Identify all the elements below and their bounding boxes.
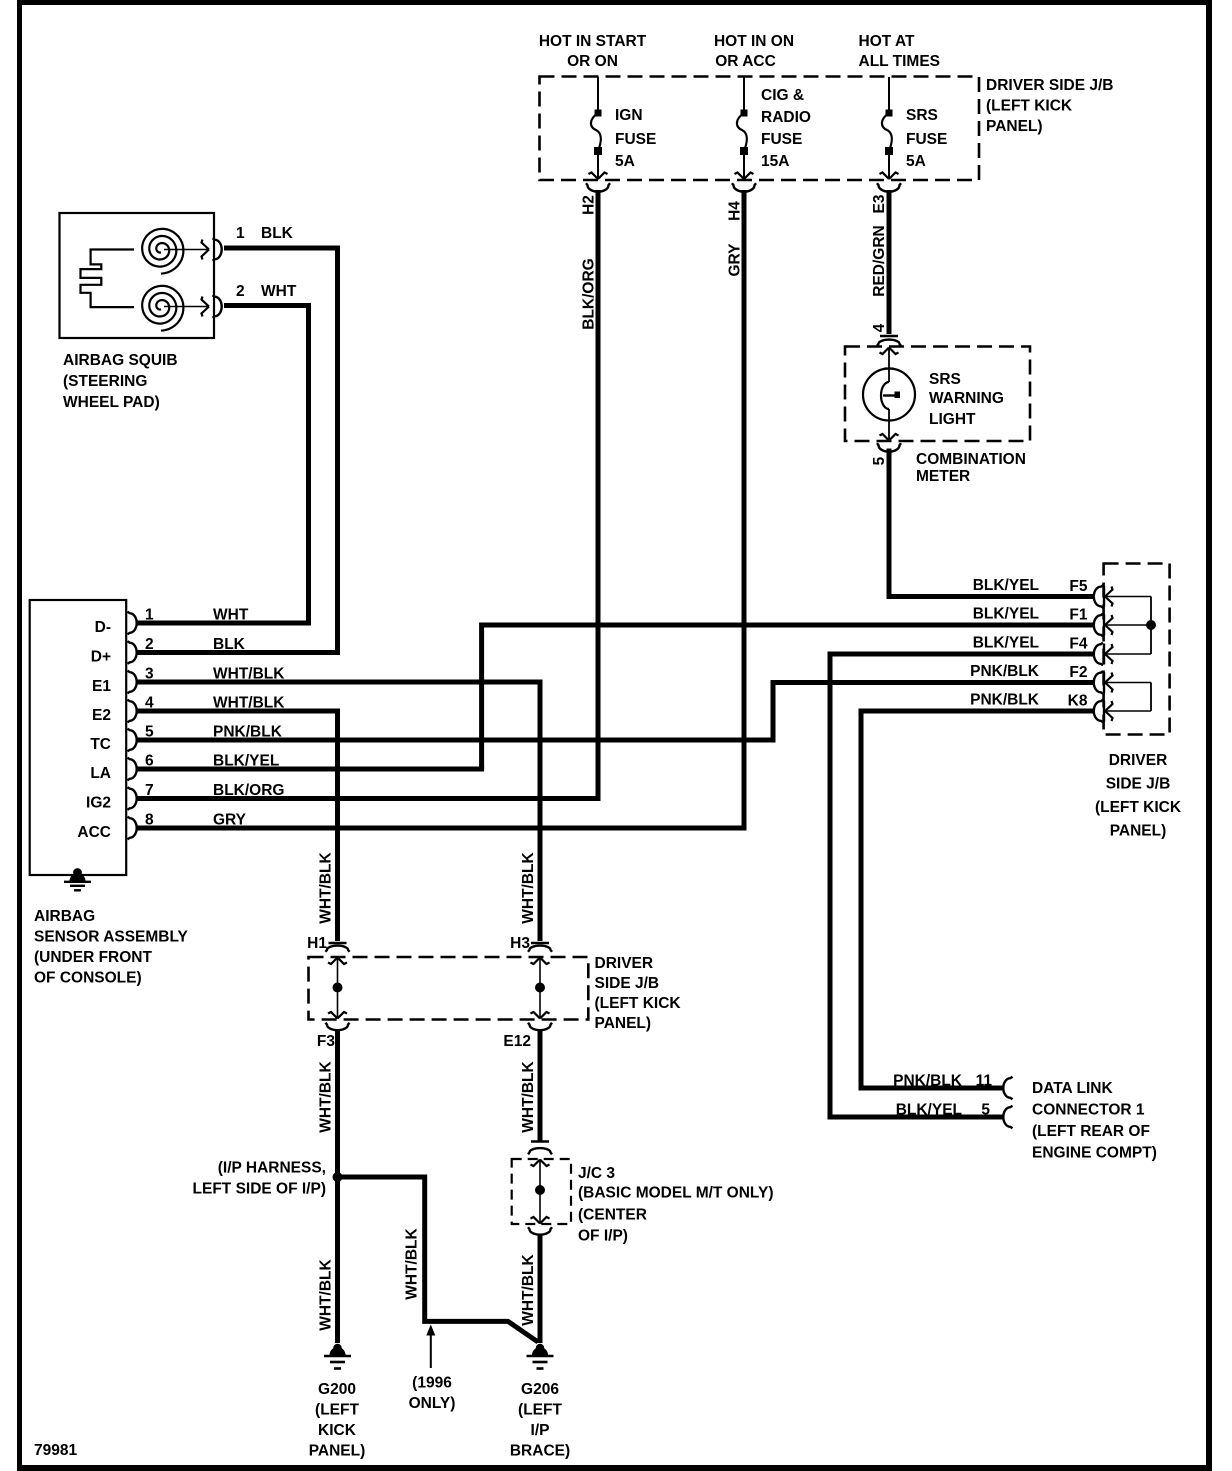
wire WHT/BLK from J/C 3 down to ground G206 (538, 1234, 543, 1344)
wire BLK/YEL from sensor pin 6 (136, 767, 484, 772)
wire BLK from sensor pin 2 (136, 650, 340, 655)
label: HOT IN ON OR ACC (714, 33, 794, 70)
svg-text:5: 5 (871, 456, 888, 465)
svg-text:ENGINE COMPT): ENGINE COMPT) (1032, 1145, 1157, 1162)
internal jumper wire F2-K8 inside J/B (1150, 683, 1152, 712)
wire WHT/BLK 1996-only branch from I/P junction to ground G206 (338, 1177, 539, 1342)
svg-text:BLK/ORG: BLK/ORG (581, 258, 598, 329)
ground G200 (324, 1344, 351, 1369)
svg-text:H4: H4 (727, 201, 744, 221)
svg-text:LA: LA (90, 765, 111, 782)
squib pin 1 arrow (164, 240, 209, 260)
svg-text:G206: G206 (521, 1381, 559, 1398)
label: DRIVER SIDE J/B (LEFT KICK PANEL) right (1095, 752, 1182, 840)
svg-text:1: 1 (236, 225, 245, 242)
svg-text:5: 5 (981, 1102, 990, 1119)
wire label BLK/ORG (vertical) (581, 258, 598, 329)
svg-text:(CENTER: (CENTER (578, 1207, 647, 1224)
connector pin 5 of combination meter (cup) (877, 443, 901, 452)
pin label 1 and wire label BLK (236, 225, 294, 242)
wire BLK/YEL F4 row to data link connector pin 5 (830, 654, 1094, 1117)
connector sensor pin 3 (cup) (128, 671, 137, 694)
wire WHT/BLK from I/P junction down to ground G200 (335, 1177, 340, 1343)
pin IG2 label (sensor) (86, 795, 111, 812)
label: diagram number 79981 (34, 1442, 77, 1459)
pin label 5 and wire label PNK/BLK (sensor row) (145, 724, 283, 741)
svg-text:HOT AT: HOT AT (859, 33, 915, 50)
svg-text:BLK/YEL: BLK/YEL (896, 1102, 962, 1119)
svg-text:WHT/BLK: WHT/BLK (404, 1227, 421, 1299)
svg-text:BLK: BLK (261, 225, 294, 242)
svg-text:CIG &: CIG & (761, 87, 804, 104)
wire label GRY (vertical) (727, 243, 744, 277)
svg-text:(LEFT KICK: (LEFT KICK (1095, 799, 1182, 816)
squib coil 1 (spiral) (142, 229, 183, 274)
jumper wire inside J/C 3 with junction dot (531, 1160, 550, 1224)
svg-text:RADIO: RADIO (761, 109, 811, 126)
svg-text:H2: H2 (581, 195, 598, 215)
wire label WHT/BLK (E12 drop, vertical) (520, 1060, 537, 1132)
svg-text:PANEL): PANEL) (309, 1443, 366, 1460)
pin label F2 (1069, 664, 1087, 681)
wire label PNK/BLK (F2 row) (970, 663, 1040, 680)
pin label 7 and wire label BLK/ORG (sensor row) (145, 782, 284, 799)
pin label 1 and wire label WHT (sensor row) (145, 607, 249, 624)
pin label H3 (510, 935, 530, 952)
svg-text:F3: F3 (317, 1033, 335, 1050)
svg-text:(BASIC MODEL M/T ONLY): (BASIC MODEL M/T ONLY) (578, 1185, 773, 1202)
svg-text:4: 4 (871, 323, 888, 332)
jumper wire H3-E12 inside J/B with junction dot (535, 958, 545, 1018)
svg-text:D-: D- (95, 619, 111, 636)
svg-text:ALL TIMES: ALL TIMES (859, 53, 941, 70)
svg-text:(STEERING: (STEERING (63, 373, 147, 390)
wire WHT/BLK from F3 down to I/P harness junction (335, 1029, 340, 1177)
svg-text:5A: 5A (615, 153, 635, 170)
connector sensor pin 7 (cup) (128, 787, 137, 810)
svg-text:WARNING: WARNING (929, 390, 1004, 407)
label: (I/P HARNESS, LEFT SIDE OF I/P) (193, 1160, 326, 1198)
wire label WHT/BLK (G200 drop, vertical) (318, 1258, 335, 1330)
pin label E12 (503, 1033, 531, 1050)
connector H4 (cup) (732, 183, 756, 192)
wire RED/GRN from fuse E3 down to SRS warning light pin 4 (887, 190, 892, 334)
connector sensor pin 5 (cup) (128, 729, 137, 752)
svg-text:(LEFT KICK: (LEFT KICK (595, 995, 682, 1012)
junction block box: COMBINATION METER (dashed) (845, 347, 1030, 442)
svg-text:(LEFT REAR OF: (LEFT REAR OF (1032, 1123, 1150, 1140)
svg-text:PANEL): PANEL) (595, 1015, 652, 1032)
wire label WHT/BLK (F3 drop, vertical) (318, 1060, 335, 1132)
connector F4 (cup and pin arrow) (1094, 643, 1151, 666)
svg-text:F2: F2 (1069, 664, 1087, 681)
svg-text:DATA LINK: DATA LINK (1032, 1080, 1113, 1097)
junction block box: DRIVER SIDE J/B (right, dashed) (1104, 564, 1170, 735)
svg-text:E3: E3 (871, 194, 888, 213)
note arrow: 1996 only pointer (426, 1325, 435, 1369)
wire label BLK/YEL (data link row) (896, 1102, 962, 1119)
svg-text:G200: G200 (318, 1381, 356, 1398)
label: HOT IN START OR ON (539, 33, 647, 70)
svg-text:WHT/BLK: WHT/BLK (318, 851, 335, 923)
wire GRY from fuse H4 down to sensor pin 8 row (742, 190, 747, 828)
pin E2 label (sensor) (92, 707, 111, 724)
pin label F1 (1069, 607, 1087, 624)
wire label PNK/BLK (K8 row) (970, 692, 1040, 709)
svg-text:(I/P HARNESS,: (I/P HARNESS, (218, 1160, 326, 1177)
svg-text:(1996: (1996 (412, 1375, 452, 1392)
svg-text:(UNDER FRONT: (UNDER FRONT (34, 949, 152, 966)
pin label 5 (data link) (981, 1102, 990, 1119)
svg-text:IG2: IG2 (86, 795, 111, 812)
connector sensor pin 8 (cup) (128, 817, 137, 840)
svg-text:AIRBAG: AIRBAG (34, 908, 95, 925)
label: CIG & RADIO FUSE 15A (761, 87, 811, 170)
pin label 11 (data link) (976, 1073, 993, 1090)
svg-text:DRIVER SIDE J/B: DRIVER SIDE J/B (986, 77, 1113, 94)
wire label WHT/BLK (H3 riser, vertical) (520, 851, 537, 923)
connector E12 (pin arrow, cup) (528, 1012, 552, 1030)
jumper wire H1-F3 inside J/B with junction dot (333, 958, 343, 1018)
connector sensor pin 2 (cup) (128, 641, 137, 664)
pin label F5 (1069, 578, 1087, 595)
svg-text:E2: E2 (92, 707, 111, 724)
svg-text:CONNECTOR 1: CONNECTOR 1 (1032, 1102, 1145, 1119)
svg-text:FUSE: FUSE (761, 131, 802, 148)
node: I/P harness splice junction dot (333, 1172, 343, 1182)
label: HOT AT ALL TIMES (859, 33, 941, 70)
ground symbol at sensor assembly (64, 868, 91, 890)
connector data link pin 5 (cup) (1003, 1106, 1012, 1129)
label: SRS WARNING LIGHT (929, 371, 1004, 428)
svg-text:TC: TC (90, 736, 111, 753)
svg-text:BLK/YEL: BLK/YEL (973, 577, 1039, 594)
junction block box: DRIVER SIDE J/B (left kick panel, top) (540, 77, 980, 181)
pin label 8 and wire label GRY (sensor row) (145, 812, 247, 829)
svg-text:DRIVER: DRIVER (1109, 752, 1168, 769)
svg-text:H1: H1 (307, 935, 327, 952)
svg-text:SRS: SRS (929, 371, 961, 388)
pin 5 label (combination meter) (871, 456, 888, 465)
svg-text:ACC: ACC (77, 824, 111, 841)
svg-text:FUSE: FUSE (906, 131, 947, 148)
connector squib pin 2 (cup) (213, 295, 222, 318)
wire WHT/BLK from E12 down to J/C 3 (538, 1029, 543, 1141)
fuse SRS FUSE 5A (880, 77, 899, 179)
wire WHT/BLK from sensor pin 4 down to J/B H1 (335, 711, 340, 941)
pin label 2 and wire label BLK (sensor row) (145, 636, 246, 653)
connector squib pin 1 (cup) (213, 238, 222, 261)
junction block box: DRIVER SIDE J/B (middle, dashed) (309, 957, 589, 1020)
svg-text:(LEFT KICK: (LEFT KICK (986, 98, 1073, 115)
svg-text:WHT: WHT (261, 283, 297, 300)
label: J/C 3 (BASIC MODEL M/T ONLY) (CENTER OF I/P) (578, 1165, 773, 1245)
wire BLK/YEL riser pin6 to F1 row, and F1 row (482, 625, 1094, 769)
wire BLK/ORG from sensor pin 7 (136, 796, 601, 801)
squib shorting-bar contact (comb shape) (81, 250, 135, 308)
svg-text:OR ACC: OR ACC (715, 53, 776, 70)
pin TC label (sensor) (90, 736, 111, 753)
pin D- label (sensor) (95, 619, 111, 636)
wire label PNK/BLK (data link row) (893, 1073, 963, 1090)
label: DATA LINK CONNECTOR 1 (LEFT REAR OF ENGINE COMPT) (1032, 1080, 1157, 1162)
svg-text:BRACE): BRACE) (510, 1443, 570, 1460)
connector F1 (cup and pin arrow) (1094, 614, 1151, 637)
pin 4 label (combination meter) (871, 323, 888, 332)
wire label BLK/YEL (F5 row) (973, 577, 1039, 594)
ground G206 (527, 1344, 554, 1369)
svg-text:HOT IN START: HOT IN START (539, 33, 647, 50)
pin D+ label (sensor) (91, 649, 111, 666)
svg-text:LEFT SIDE OF I/P): LEFT SIDE OF I/P) (193, 1181, 326, 1198)
label: SRS FUSE 5A (906, 107, 947, 170)
svg-text:I/P: I/P (531, 1422, 550, 1439)
label: (1996 ONLY) (409, 1375, 456, 1413)
connector H2 (cup) (586, 183, 610, 192)
svg-text:D+: D+ (91, 649, 111, 666)
svg-text:BLK/YEL: BLK/YEL (973, 606, 1039, 623)
node: junction dot on F1 jumper (1146, 620, 1156, 630)
svg-text:OR ON: OR ON (567, 53, 618, 70)
squib pin 2 arrow (164, 297, 209, 317)
svg-text:5A: 5A (906, 153, 926, 170)
svg-text:HOT IN ON: HOT IN ON (714, 33, 794, 50)
label: G200 (LEFT KICK PANEL) (309, 1381, 366, 1460)
svg-text:PANEL): PANEL) (986, 118, 1043, 135)
svg-text:LIGHT: LIGHT (929, 411, 976, 428)
wire label BLK/YEL (F1 row) (973, 606, 1039, 623)
svg-text:J/C 3: J/C 3 (578, 1165, 615, 1182)
fuse CIG & RADIO FUSE 15A (735, 77, 754, 179)
connector sensor pin 6 (cup) (128, 758, 137, 781)
pin label H2 (581, 195, 598, 215)
connector E3 (cup) (877, 183, 901, 192)
connector into J/C 3 (T-bar and cup) (528, 1142, 552, 1155)
svg-text:PNK/BLK: PNK/BLK (970, 692, 1040, 709)
wire GRY from sensor pin 8 (136, 826, 747, 831)
wire BLK from squib pin 1 down to sensor pin 2 (224, 248, 338, 653)
pin ACC label (sensor) (77, 824, 111, 841)
connector H1 (T-bar, cup, pin arrow) (326, 943, 350, 964)
svg-text:H3: H3 (510, 935, 530, 952)
pin label 4 and wire label WHT/BLK (sensor row) (145, 695, 285, 712)
wire BLK/YEL from combination meter pin 5 to J/B F5 (889, 449, 1094, 597)
svg-text:WHT/BLK: WHT/BLK (318, 1060, 335, 1132)
svg-text:SENSOR ASSEMBLY: SENSOR ASSEMBLY (34, 929, 189, 946)
svg-text:OF CONSOLE): OF CONSOLE) (34, 970, 142, 987)
svg-text:PANEL): PANEL) (1110, 823, 1167, 840)
label: G206 (LEFT I/P BRACE) (510, 1381, 570, 1460)
svg-text:AIRBAG SQUIB: AIRBAG SQUIB (63, 352, 178, 369)
connector sensor pin 4 (cup) (128, 700, 137, 723)
svg-text:WHT/BLK: WHT/BLK (520, 1060, 537, 1132)
wire label WHT/BLK (1996 branch, vertical) (404, 1227, 421, 1299)
wire label WHT/BLK (G206 drop, vertical) (520, 1253, 537, 1325)
connector K8 (cup and pin arrow) (1094, 700, 1151, 723)
pin label E3 (871, 194, 888, 213)
svg-text:GRY: GRY (727, 243, 744, 277)
svg-text:IGN: IGN (615, 107, 643, 124)
pin label 2 and wire label WHT (236, 283, 297, 300)
junction connector box: J/C 3 (dashed) (512, 1159, 571, 1224)
label: AIRBAG SQUIB (STEERING WHEEL PAD) (63, 352, 178, 411)
svg-text:F1: F1 (1069, 607, 1087, 624)
connector out of J/C 3 (cup) (528, 1227, 552, 1235)
pin label K8 (1068, 693, 1088, 710)
svg-text:FUSE: FUSE (615, 131, 656, 148)
pin label 6 and wire label BLK/YEL (sensor row) (145, 753, 279, 770)
lamp: SRS WARNING LIGHT (bulb symbol) (863, 348, 915, 441)
fuse IGN FUSE 5A (589, 77, 608, 179)
svg-text:SRS: SRS (906, 107, 938, 124)
pin label F4 (1069, 636, 1087, 653)
wire WHT from sensor pin 1 (136, 621, 311, 626)
wire label RED/GRN (vertical) (871, 225, 888, 296)
component box: AIRBAG SENSOR ASSEMBLY (30, 600, 127, 875)
svg-text:F4: F4 (1069, 636, 1087, 653)
wire WHT/BLK from sensor pin 4 (136, 709, 340, 714)
svg-text:RED/GRN: RED/GRN (871, 225, 888, 296)
svg-text:(LEFT: (LEFT (518, 1402, 562, 1419)
svg-text:BLK/YEL: BLK/YEL (973, 635, 1039, 652)
squib coil 2 (spiral) (142, 286, 183, 331)
wire PNK/BLK riser pin5 to F2 row, and F2 row (773, 683, 1094, 741)
connector F2 (cup and pin arrow) (1094, 671, 1151, 694)
svg-text:K8: K8 (1068, 693, 1088, 710)
wire WHT from squib pin 2 down to sensor pin 1 (224, 306, 309, 624)
connector data link pin 11 (cup) (1003, 1077, 1012, 1100)
svg-text:METER: METER (916, 468, 970, 485)
pin E1 label (sensor) (92, 678, 111, 695)
pin label H4 (727, 201, 744, 221)
svg-text:PNK/BLK: PNK/BLK (970, 663, 1040, 680)
pin label 3 and wire label WHT/BLK (sensor row) (145, 666, 285, 683)
label: AIRBAG SENSOR ASSEMBLY (UNDER FRONT OF CONSOLE) (34, 908, 189, 987)
svg-text:79981: 79981 (34, 1442, 77, 1459)
svg-text:2: 2 (236, 283, 245, 300)
component box: AIRBAG SQUIB (60, 213, 215, 338)
connector F5 (cup and pin arrow) (1094, 585, 1151, 608)
svg-text:E12: E12 (503, 1033, 531, 1050)
wire label WHT/BLK (H1 riser, vertical) (318, 851, 335, 923)
svg-text:(LEFT: (LEFT (315, 1402, 359, 1419)
svg-text:WHT/BLK: WHT/BLK (318, 1258, 335, 1330)
svg-text:SIDE J/B: SIDE J/B (1106, 776, 1171, 793)
pin label H1 (307, 935, 327, 952)
connector F3 (pin arrow, cup) (326, 1012, 350, 1030)
label: IGN FUSE 5A (615, 107, 656, 170)
wire BLK/ORG from fuse H2 down to sensor pin 7 row (596, 190, 601, 799)
pin label F3 (317, 1033, 335, 1050)
svg-text:F5: F5 (1069, 578, 1087, 595)
svg-text:WHT/BLK: WHT/BLK (520, 1253, 537, 1325)
svg-text:COMBINATION: COMBINATION (916, 451, 1026, 468)
wire PNK/BLK K8 row to data link connector pin 11 (861, 711, 1094, 1088)
label: DRIVER SIDE J/B (LEFT KICK PANEL) top right (986, 77, 1113, 135)
svg-text:DRIVER: DRIVER (595, 955, 654, 972)
svg-text:OF I/P): OF I/P) (578, 1228, 628, 1245)
connector pin 4 of combination meter (T-bar and cup) (877, 336, 901, 346)
internal jumper wire F5-F4 inside J/B (1150, 597, 1152, 655)
svg-text:WHT/BLK: WHT/BLK (520, 851, 537, 923)
wire WHT/BLK from sensor pin 3 (136, 680, 543, 685)
svg-text:11: 11 (976, 1073, 993, 1090)
label: DRIVER SIDE J/B (LEFT KICK PANEL) middle (595, 955, 682, 1032)
svg-text:PNK/BLK: PNK/BLK (893, 1073, 963, 1090)
svg-text:SIDE J/B: SIDE J/B (595, 975, 660, 992)
connector sensor pin 1 (cup) (128, 612, 137, 635)
svg-text:ONLY): ONLY) (409, 1395, 456, 1412)
wire WHT/BLK from sensor pin 3 down to J/B H3 (538, 682, 543, 941)
svg-text:WHEEL PAD): WHEEL PAD) (63, 394, 160, 411)
junction block left-edge pin bars (dashed edge segments) (1103, 586, 1105, 722)
pin LA label (sensor) (90, 765, 111, 782)
wire label BLK/YEL (F4 row) (973, 635, 1039, 652)
wire PNK/BLK from sensor pin 5 (136, 738, 776, 743)
label: COMBINATION METER (916, 451, 1026, 485)
svg-text:KICK: KICK (318, 1422, 357, 1439)
svg-text:15A: 15A (761, 153, 789, 170)
svg-text:E1: E1 (92, 678, 111, 695)
connector H3 (T-bar, cup, pin arrow) (528, 943, 552, 964)
